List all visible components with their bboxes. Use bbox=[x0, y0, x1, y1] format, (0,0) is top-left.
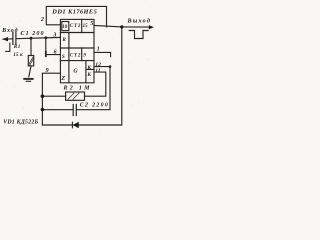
svg-text:К: К bbox=[86, 72, 91, 78]
svg-text:11: 11 bbox=[95, 68, 100, 74]
svg-text:5: 5 bbox=[90, 20, 93, 27]
svg-text:VD1 КД522Б: VD1 КД522Б bbox=[3, 119, 38, 125]
svg-text:С1 200: С1 200 bbox=[21, 31, 44, 37]
svg-text:9: 9 bbox=[46, 68, 49, 74]
svg-text:R1: R1 bbox=[14, 44, 21, 50]
svg-text:15: 15 bbox=[83, 24, 89, 29]
svg-text:2: 2 bbox=[40, 17, 44, 23]
svg-text:6: 6 bbox=[54, 49, 57, 55]
svg-text:R: R bbox=[62, 37, 66, 43]
svg-text:СТ2: СТ2 bbox=[70, 53, 81, 58]
svg-text:К: К bbox=[86, 65, 91, 71]
svg-text:DD1 К176ИЕ5: DD1 К176ИЕ5 bbox=[51, 8, 97, 15]
svg-text:R2 1М: R2 1М bbox=[63, 85, 91, 91]
svg-text:S: S bbox=[62, 54, 65, 60]
svg-text:10: 10 bbox=[62, 24, 68, 30]
svg-text:Выход: Выход bbox=[127, 18, 151, 25]
svg-text:СТ2: СТ2 bbox=[70, 24, 81, 29]
svg-text:Вход: Вход bbox=[1, 27, 18, 34]
svg-text:Z: Z bbox=[60, 76, 65, 82]
svg-text:15 к: 15 к bbox=[13, 52, 23, 58]
svg-text:1: 1 bbox=[97, 47, 100, 53]
